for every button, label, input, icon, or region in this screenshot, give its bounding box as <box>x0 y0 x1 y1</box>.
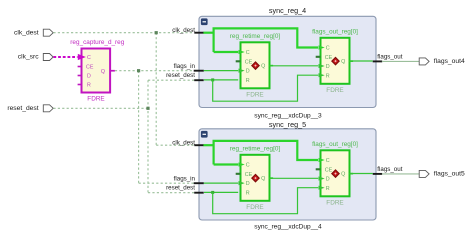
reg_retime_reg[0] instance label <box>230 33 281 40</box>
sync_reg_4 flags_in wire to reg_retime_reg D <box>204 70 238 72</box>
reg_retime_reg[0] pin CE unconnected marker <box>236 60 241 62</box>
svg-text:reset_dest: reset_dest <box>166 72 195 79</box>
svg-text:reset_dest: reset_dest <box>7 105 38 112</box>
sync_reg_4 arrow into flags_out_reg D <box>319 64 325 68</box>
net reg_capture_d_reg Q vertical wire <box>138 71 140 184</box>
sync_reg_4 pin flags_in label <box>174 63 196 70</box>
svg-text:C: C <box>326 158 330 164</box>
sync_reg_5 wire reg_retime Q to flags_out_reg D <box>270 177 318 179</box>
sync_reg_4 clock wire trunk to both C pins <box>214 28 318 52</box>
flags_out_reg[0] instance label <box>312 29 358 36</box>
sync_reg_4 reset junction <box>211 78 214 81</box>
sync_reg_5 pin clk_dest label <box>172 140 195 147</box>
net reg_capture_d_reg Q junction <box>137 69 140 72</box>
sync_reg_4 clock branch to reg_retime_reg C <box>214 51 239 53</box>
reg_capture_d_reg pin R label <box>87 83 91 89</box>
svg-text:flags_out4: flags_out4 <box>434 58 465 65</box>
reg_capture_d_reg pin Q stub <box>110 70 115 72</box>
sync_reg_4 bottom label sync_reg__xdcDup__3 <box>254 112 322 119</box>
net clk_dest wire to sync_reg_4 <box>53 32 194 34</box>
sync_reg_5 pin reset_dest label <box>166 185 195 192</box>
flags_out_reg[0] pin C label <box>326 46 330 52</box>
flags_out_reg[0] pin R label <box>326 73 330 79</box>
sync_reg_5 arrow into flags_out_reg D <box>319 176 325 180</box>
sync_reg_4 arrow into flags_out_reg C <box>319 45 325 49</box>
flip-flop flags_out_reg[0] cell body <box>321 38 350 84</box>
reg_retime_reg[0] pin C label <box>246 163 250 169</box>
reg_retime_reg[0] pin C label <box>246 50 250 56</box>
net reg_capture_d_reg Q wire to sync_reg_5 <box>139 182 194 184</box>
sync_reg_4 pin clk_dest label <box>172 27 195 34</box>
reg_capture_d_reg type label FDRE <box>87 95 104 102</box>
svg-text:D: D <box>87 74 91 80</box>
sync_reg_5 wire flags_out_reg Q to flags_out pin <box>350 173 373 175</box>
sync_reg_5 flags_in wire to reg_retime_reg D <box>204 182 238 184</box>
sync_reg_4 pin reset_dest label <box>166 72 195 79</box>
net flags_out5 wire <box>382 173 419 175</box>
hierarchical block sync_reg_5 body <box>199 129 376 220</box>
svg-text:R: R <box>326 73 330 79</box>
svg-text:FDRE: FDRE <box>326 87 343 94</box>
flags_out_reg[0] pin CE unconnected marker <box>316 168 321 170</box>
flags_out_reg[0] pin D label <box>326 64 330 70</box>
reg_capture_d_reg pin D label <box>87 74 91 80</box>
net reset_dest wire to sync_reg_5 <box>148 192 194 194</box>
svg-text:Q: Q <box>101 69 105 75</box>
net reg_capture_d_reg Q wire to sync_reg_4 <box>115 70 194 72</box>
sync_reg_4 wire reg_retime Q to flags_out_reg D <box>270 65 318 67</box>
sync_reg_4 wire flags_out_reg Q to flags_out pin <box>350 60 373 62</box>
svg-text:CE: CE <box>245 172 253 178</box>
svg-text:D: D <box>246 69 250 75</box>
input port clk_dest symbol <box>43 29 53 36</box>
sync_reg_4 arrow into reg_retime_reg D <box>239 69 245 73</box>
svg-text:CE: CE <box>325 55 333 61</box>
flags_out_reg[0] type label FDRE <box>326 199 343 206</box>
output port flags_out4 symbol <box>419 58 429 65</box>
net reset_dest junction <box>146 107 149 110</box>
register reg_capture_d_reg cell body <box>82 49 111 93</box>
output port flags_out4 label <box>434 58 465 65</box>
flags_out_reg[0] pin CE label <box>325 55 333 61</box>
svg-text:reg_retime_reg[0]: reg_retime_reg[0] <box>230 146 281 153</box>
sync_reg_5 reset junction <box>211 191 214 194</box>
reg_retime_reg[0] primitive marker (red diamond) <box>252 174 259 181</box>
register reg_capture_d_reg label <box>70 39 124 46</box>
net reset_dest vertical wire <box>147 80 149 193</box>
svg-text:FDRE: FDRE <box>246 204 263 211</box>
flags_out_reg[0] pin Q label <box>341 172 345 178</box>
sync_reg_4 reset branch wire to flags_out_reg R <box>213 75 319 101</box>
svg-text:R: R <box>87 83 91 89</box>
flags_out_reg[0] pin Q stub <box>350 60 354 62</box>
reg_capture_d_reg pin CE stub <box>78 66 82 68</box>
svg-text:CE: CE <box>86 65 94 71</box>
svg-text:flags_out_reg[0]: flags_out_reg[0] <box>312 29 358 36</box>
flags_out_reg[0] type label FDRE <box>326 87 343 94</box>
sync_reg_5 pin clk_dest stub <box>194 144 204 146</box>
sync_reg_5 clock wire trunk to both C pins <box>214 141 318 165</box>
net clk_dest junction <box>155 31 158 34</box>
svg-text:Q: Q <box>341 59 345 65</box>
input port reset_dest symbol <box>43 105 53 112</box>
sync_reg_5 arrow into flags_out_reg C <box>319 158 325 162</box>
sync_reg_5 arrow into flags_out_reg R <box>319 186 325 190</box>
reg_retime_reg[0] pin R label <box>246 190 250 196</box>
svg-text:CE: CE <box>245 59 253 65</box>
input port clk_src symbol <box>43 54 53 61</box>
sync_reg_5 reset branch wire to flags_out_reg R <box>213 188 319 214</box>
sync_reg_4 arrow into flags_out_reg R <box>319 73 325 77</box>
reg_capture_d_reg pin D stub <box>78 75 82 77</box>
flags_out_reg[0] pin CE unconnected marker <box>316 56 321 58</box>
reg_retime_reg[0] pin Q stub <box>270 65 274 67</box>
output port flags_out5 symbol <box>419 170 429 177</box>
sync_reg_4 clock wire from clk_dest pin <box>203 32 213 34</box>
input port clk_dest label <box>14 29 39 36</box>
svg-text:flags_in: flags_in <box>174 63 196 70</box>
svg-text:FDRE: FDRE <box>326 199 343 206</box>
svg-text:C: C <box>246 163 250 169</box>
sync_reg_5 clock branch to reg_retime_reg C <box>214 163 239 165</box>
reg_capture_d_reg pin R stub <box>78 84 82 86</box>
flags_out_reg[0] pin R label <box>326 186 330 192</box>
svg-text:clk_dest: clk_dest <box>172 27 195 34</box>
svg-text:CE: CE <box>325 167 333 173</box>
net flags_out4 wire <box>382 60 419 62</box>
sync_reg_5 arrow into reg_retime_reg D <box>239 181 245 185</box>
reg_retime_reg[0] pin CE label <box>245 172 253 178</box>
sync_reg_5 title <box>269 120 306 129</box>
svg-text:sync_reg__xdcDup__3: sync_reg__xdcDup__3 <box>254 112 322 119</box>
svg-text:sync_reg_4: sync_reg_4 <box>269 6 306 15</box>
output port flags_out5 label <box>434 170 465 177</box>
sync_reg_5 arrow into reg_retime_reg C <box>239 162 245 166</box>
sync_reg_5 pin flags_in stub <box>194 182 204 184</box>
sync_reg_4 collapse icon <box>201 18 208 25</box>
svg-text:clk_dest: clk_dest <box>172 140 195 147</box>
reg_retime_reg[0] primitive marker (red diamond) <box>252 62 259 69</box>
flags_out_reg[0] primitive marker (red diamond) <box>332 170 339 177</box>
sync_reg_5 pin flags_out label <box>377 166 402 173</box>
flags_out_reg[0] pin Q label <box>341 59 345 65</box>
svg-text:R: R <box>326 186 330 192</box>
reg_capture_d_reg pin Q label <box>101 69 105 75</box>
hierarchical block sync_reg_4 body <box>199 16 376 107</box>
sync_reg_4 pin reset_dest stub <box>194 79 204 81</box>
reg_retime_reg[0] pin CE unconnected marker <box>236 173 241 175</box>
reg_capture_d_reg pin CE label <box>86 65 94 71</box>
svg-text:reg_retime_reg[0]: reg_retime_reg[0] <box>230 33 281 40</box>
reg_retime_reg[0] pin R label <box>246 78 250 84</box>
sync_reg_4 pin flags_in stub <box>194 70 204 72</box>
svg-text:D: D <box>246 181 250 187</box>
flags_out_reg[0] pin Q stub <box>350 173 354 175</box>
sync_reg_4 pin clk_dest stub <box>194 32 204 34</box>
reg_retime_reg[0] instance label <box>230 146 281 153</box>
svg-text:sync_reg_5: sync_reg_5 <box>269 120 306 129</box>
svg-text:reg_capture_d_reg: reg_capture_d_reg <box>70 39 124 46</box>
input port clk_src label <box>18 54 39 61</box>
sync_reg_5 collapse icon <box>201 131 208 138</box>
sync_reg_5 reset wire to reg_retime_reg R <box>204 191 238 193</box>
svg-text:C: C <box>326 46 330 52</box>
svg-text:flags_out5: flags_out5 <box>434 170 465 177</box>
sync_reg_4 arrow into reg_retime_reg C <box>239 50 245 54</box>
sync_reg_5 pin flags_out stub <box>373 173 383 175</box>
net clk_src wire <box>53 56 77 58</box>
svg-text:D: D <box>326 177 330 183</box>
net clk_dest wire to sync_reg_5 <box>156 144 194 146</box>
sync_reg_5 pin flags_in label <box>174 176 196 183</box>
sync_reg_4 pin flags_out stub <box>373 60 383 62</box>
reg_retime_reg[0] pin Q label <box>261 176 265 182</box>
reg_retime_reg[0] pin CE label <box>245 59 253 65</box>
sync_reg_5 pin reset_dest stub <box>194 192 204 194</box>
svg-text:clk_src: clk_src <box>18 54 39 61</box>
svg-text:Q: Q <box>261 64 265 70</box>
reg_retime_reg[0] pin D label <box>246 69 250 75</box>
reg_capture_d_reg pin C label <box>87 55 91 61</box>
flip-flop flags_out_reg[0] cell body <box>321 150 350 196</box>
svg-text:D: D <box>326 64 330 70</box>
svg-text:C: C <box>246 50 250 56</box>
reg_retime_reg[0] pin D label <box>246 181 250 187</box>
sync_reg_4 reset wire to reg_retime_reg R <box>204 79 238 81</box>
svg-text:Q: Q <box>261 176 265 182</box>
reg_retime_reg[0] type label FDRE <box>246 204 263 211</box>
sync_reg_4 pin flags_out label <box>377 54 402 61</box>
sync_reg_5 clock wire from clk_dest pin <box>203 144 213 146</box>
reg_retime_reg[0] pin Q stub <box>270 177 274 179</box>
svg-text:flags_out_reg[0]: flags_out_reg[0] <box>312 141 358 148</box>
svg-text:clk_dest: clk_dest <box>14 29 39 36</box>
sync_reg_5 bottom label sync_reg__xdcDup__4 <box>254 223 322 230</box>
flags_out_reg[0] pin D label <box>326 177 330 183</box>
flags_out_reg[0] pin CE label <box>325 167 333 173</box>
reg_retime_reg[0] type label FDRE <box>246 91 263 98</box>
svg-text:FDRE: FDRE <box>87 95 104 102</box>
flip-flop reg_retime_reg[0] cell body <box>241 42 270 88</box>
svg-text:Q: Q <box>341 172 345 178</box>
svg-text:flags_out: flags_out <box>377 166 402 173</box>
net clk_src arrow into reg_capture_d_reg C <box>78 54 86 60</box>
input port reset_dest label <box>7 105 38 112</box>
flip-flop reg_retime_reg[0] cell body <box>241 155 270 201</box>
svg-text:R: R <box>246 78 250 84</box>
flags_out_reg[0] primitive marker (red diamond) <box>332 57 339 64</box>
net reset_dest wire from port <box>53 107 148 109</box>
net clk_dest vertical wire <box>155 33 157 146</box>
svg-text:flags_in: flags_in <box>174 176 196 183</box>
svg-text:reset_dest: reset_dest <box>166 185 195 192</box>
svg-text:FDRE: FDRE <box>246 91 263 98</box>
sync_reg_4 title <box>269 6 306 15</box>
flags_out_reg[0] instance label <box>312 141 358 148</box>
svg-text:flags_out: flags_out <box>377 54 402 61</box>
svg-text:C: C <box>87 55 91 61</box>
svg-text:sync_reg__xdcDup__4: sync_reg__xdcDup__4 <box>254 223 322 230</box>
flags_out_reg[0] pin C label <box>326 158 330 164</box>
reg_retime_reg[0] pin Q label <box>261 64 265 70</box>
net reset_dest wire to sync_reg_4 <box>148 79 194 81</box>
svg-text:R: R <box>246 190 250 196</box>
